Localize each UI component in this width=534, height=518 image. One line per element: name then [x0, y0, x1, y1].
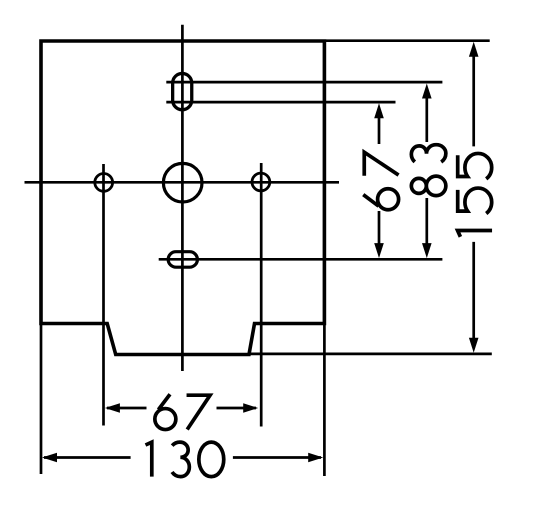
dim 83 vertical shaft upper — [425, 90, 428, 142]
hole left small circle — [95, 174, 113, 192]
arrow up dim 83 — [422, 84, 432, 99]
arrow up dim 67 — [374, 103, 384, 118]
dim 67 vertical shaft lower — [378, 211, 381, 252]
arrow down dim 67 — [374, 243, 384, 258]
extension line plate left bottom — [40, 324, 43, 475]
plate outline — [41, 41, 324, 355]
dim 67 bottom shaft left — [107, 407, 147, 410]
horizontal center line — [25, 181, 340, 184]
dim 67 bottom shaft right — [217, 407, 257, 410]
arrow right dim 130 — [308, 453, 323, 463]
vertical center line — [181, 25, 184, 371]
extension line slot bottom arc — [166, 101, 395, 104]
dim 155 vertical shaft upper — [472, 48, 475, 146]
dim text 67 bottom — [155, 394, 210, 429]
dim 83 vertical shaft lower — [425, 198, 428, 252]
extension line top edge right — [326, 39, 490, 42]
dim 130 shaft right — [233, 456, 321, 459]
top vertical slot — [173, 73, 192, 109]
arrow left dim 67 bottom — [105, 403, 120, 413]
arrow down dim 83 — [422, 243, 432, 258]
arrow right dim 67 bottom — [243, 403, 258, 413]
dim text 130 bottom — [146, 442, 224, 477]
extension line right circle vertical — [260, 163, 263, 427]
extension line slot top arc — [166, 81, 442, 84]
dim 130 shaft left — [44, 456, 131, 459]
extension line horizontal slot center — [159, 258, 443, 261]
dim text 67 rotated (right side) — [363, 152, 398, 210]
arrow up dim 155 — [469, 42, 479, 57]
dim text 83 rotated (right side) — [411, 145, 446, 196]
extension line plate right bottom — [323, 324, 326, 477]
extension line left circle vertical — [102, 164, 105, 426]
dim text 155 rotated (right side) — [458, 153, 493, 236]
hole center big circle — [163, 163, 202, 202]
extension line notch bottom right — [250, 353, 492, 356]
dim 155 vertical shaft lower — [472, 242, 475, 347]
dim 67 vertical shaft upper — [378, 110, 381, 144]
arrow down dim 155 — [469, 338, 479, 353]
hole right small circle — [252, 173, 270, 191]
arrow left dim 130 — [42, 453, 57, 463]
lower horizontal slot — [168, 252, 197, 268]
